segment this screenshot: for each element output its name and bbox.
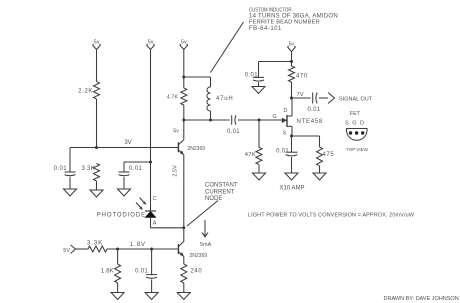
svg-text:0.01: 0.01 — [245, 73, 259, 79]
svg-text:SIGNAL OUT: SIGNAL OUT — [339, 96, 373, 102]
svg-text:7V: 7V — [297, 92, 304, 98]
svg-text:S G D: S G D — [345, 121, 365, 127]
svg-text:2.2K: 2.2K — [78, 89, 93, 95]
svg-text:5v: 5v — [289, 41, 295, 47]
svg-text:4.7K: 4.7K — [167, 95, 179, 101]
svg-text:G: G — [272, 114, 276, 120]
svg-text:TOP VIEW: TOP VIEW — [346, 147, 369, 152]
svg-text:FB-64-101: FB-64-101 — [249, 26, 282, 32]
svg-text:PHOTODIODE: PHOTODIODE — [97, 213, 146, 219]
svg-text:DRAWN BY: DAVE JOHNSON: DRAWN BY: DAVE JOHNSON — [384, 296, 459, 302]
svg-text:1.8V: 1.8V — [130, 242, 146, 248]
svg-text:C: C — [153, 196, 157, 202]
svg-text:0.01: 0.01 — [308, 107, 321, 113]
svg-text:3V: 3V — [124, 140, 131, 146]
svg-text:X10 AMP: X10 AMP — [279, 186, 304, 192]
svg-text:475: 475 — [323, 152, 335, 158]
svg-text:5v: 5v — [148, 39, 154, 45]
svg-text:5v: 5v — [181, 39, 187, 45]
svg-text:CURRENT: CURRENT — [205, 189, 235, 195]
svg-text:2N2369: 2N2369 — [190, 253, 208, 259]
svg-text:FERRITE BEAD NUMBER: FERRITE BEAD NUMBER — [249, 20, 320, 26]
svg-text:5v: 5v — [173, 129, 179, 135]
svg-text:2.5V: 2.5V — [173, 165, 179, 177]
svg-text:2N2369: 2N2369 — [188, 146, 206, 152]
svg-text:A: A — [153, 221, 157, 227]
svg-text:3.3K: 3.3K — [81, 166, 95, 172]
svg-text:3.3K: 3.3K — [87, 239, 103, 246]
svg-text:240: 240 — [191, 269, 203, 275]
svg-text:NODE: NODE — [205, 196, 222, 202]
svg-text:0.01: 0.01 — [227, 129, 240, 135]
svg-text:0.01: 0.01 — [54, 166, 68, 172]
svg-text:14 TURNS OF 36GA, AMIDON: 14 TURNS OF 36GA, AMIDON — [249, 13, 338, 19]
svg-text:47K: 47K — [245, 152, 256, 158]
svg-text:1.8K: 1.8K — [101, 269, 114, 275]
svg-text:CONSTANT: CONSTANT — [205, 183, 238, 189]
svg-text:FET: FET — [350, 111, 361, 117]
svg-text:NTE458: NTE458 — [297, 119, 324, 125]
svg-text:LIGHT POWER TO VOLTS CONVERSIO: LIGHT POWER TO VOLTS CONVERSION = APPROX… — [248, 213, 415, 219]
svg-text:D: D — [284, 108, 288, 114]
svg-text:0.01: 0.01 — [135, 269, 148, 275]
svg-text:47uH: 47uH — [216, 96, 234, 102]
svg-text:S: S — [283, 131, 287, 137]
svg-text:5mA: 5mA — [200, 242, 212, 248]
svg-text:5v: 5v — [94, 39, 100, 45]
svg-text:470: 470 — [296, 74, 308, 80]
svg-text:0.01: 0.01 — [276, 149, 289, 155]
svg-text:5V: 5V — [63, 248, 70, 254]
svg-text:0.01: 0.01 — [129, 166, 143, 172]
